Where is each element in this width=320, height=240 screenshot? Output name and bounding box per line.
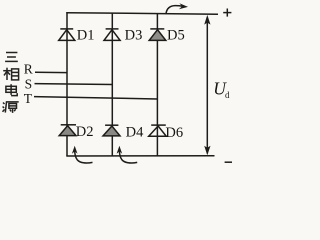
svg-text:S: S xyxy=(25,76,33,91)
svg-text:D3: D3 xyxy=(125,27,143,43)
svg-text:D6: D6 xyxy=(165,125,183,141)
svg-text:D4: D4 xyxy=(126,124,144,140)
svg-text:R: R xyxy=(24,61,33,76)
svg-text:D1: D1 xyxy=(77,27,95,43)
svg-text:D5: D5 xyxy=(167,28,185,44)
svg-text:d: d xyxy=(225,90,230,100)
svg-text:D2: D2 xyxy=(76,124,94,140)
svg-text:T: T xyxy=(24,91,33,106)
